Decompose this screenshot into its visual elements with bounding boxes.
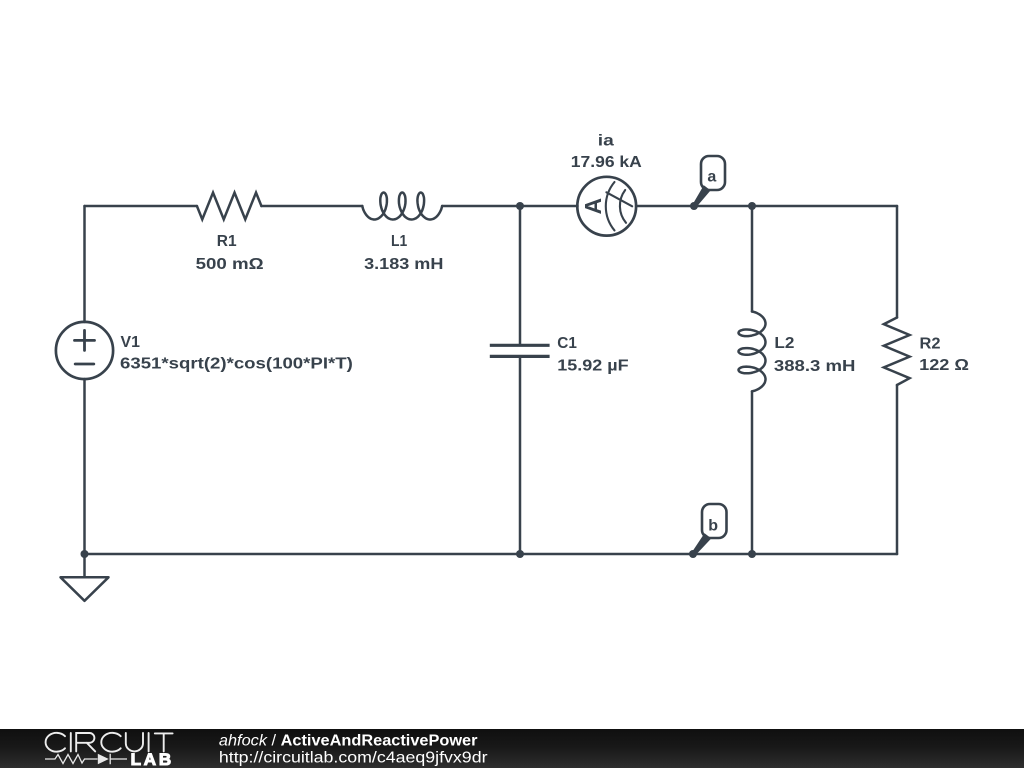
- logo CIRCUIT: [46, 733, 173, 752]
- svg-text:17.96 kA: 17.96 kA: [571, 154, 642, 171]
- svg-text:A: A: [580, 198, 606, 215]
- wire L2 bottom lead: [751, 391, 754, 554]
- node dot L2 top: [748, 202, 756, 210]
- wire R1 to L1: [261, 205, 362, 208]
- ground: [83, 554, 86, 577]
- wire top from V1 to R1: [85, 205, 197, 208]
- logo doodle resistor+diode: [45, 754, 127, 764]
- node flag a box: [701, 156, 725, 190]
- wire bottom: [85, 553, 898, 556]
- wire ammeter to right corner: [636, 205, 897, 208]
- svg-text:122 Ω: 122 Ω: [919, 357, 969, 374]
- ammeter M1: [577, 177, 636, 236]
- inductor L2: [739, 312, 766, 392]
- svg-text:500 mΩ: 500 mΩ: [196, 256, 264, 273]
- wire C1 bottom lead: [519, 358, 522, 554]
- footer bar: [0, 729, 1024, 768]
- node dot b: [689, 550, 697, 558]
- node dot a: [690, 202, 698, 210]
- svg-text:388.3 mH: 388.3 mH: [774, 358, 856, 375]
- resistor R2: [884, 318, 910, 386]
- svg-text:LAB: LAB: [131, 750, 174, 768]
- node dot C1 bottom: [516, 550, 524, 558]
- node dot L2 bottom: [748, 550, 756, 558]
- flag b pointer: [692, 533, 712, 556]
- flag a pointer: [693, 185, 711, 207]
- node flag b box: [702, 504, 727, 538]
- svg-text:3.183 mH: 3.183 mH: [364, 256, 443, 273]
- resistor R1: [197, 193, 262, 220]
- node dot ground: [81, 550, 89, 558]
- wire V1 bottom lead: [83, 379, 86, 554]
- wire V1 top lead: [83, 206, 86, 322]
- svg-text:6351*sqrt(2)*cos(100*PI*T): 6351*sqrt(2)*cos(100*PI*T): [120, 356, 353, 373]
- svg-text:http://circuitlab.com/c4aeq9jf: http://circuitlab.com/c4aeq9jfvx9dr: [219, 750, 488, 767]
- inductor L1: [362, 193, 442, 220]
- wire L2 top lead: [751, 206, 754, 312]
- wire C1 top lead: [519, 206, 522, 344]
- svg-text:ia: ia: [598, 133, 614, 150]
- svg-text:ahfock / ActiveAndReactivePowe: ahfock / ActiveAndReactivePower: [219, 733, 478, 750]
- wire right side down to R2: [896, 206, 899, 318]
- voltage source V1: [56, 322, 113, 379]
- wire R2 to bottom corner: [896, 385, 899, 554]
- svg-text:b: b: [708, 518, 718, 535]
- svg-text:C1: C1: [557, 335, 577, 352]
- svg-text:15.92 µF: 15.92 µF: [557, 357, 629, 374]
- node dot C1 top: [516, 202, 524, 210]
- svg-text:V1: V1: [121, 334, 140, 351]
- capacitor C1: [490, 345, 550, 356]
- svg-text:a: a: [707, 168, 716, 185]
- wire L1 to ammeter (through node at 520): [442, 205, 577, 208]
- svg-text:R1: R1: [217, 233, 237, 250]
- svg-text:L1: L1: [391, 233, 407, 250]
- svg-text:R2: R2: [920, 335, 941, 352]
- svg-text:L2: L2: [774, 335, 794, 352]
